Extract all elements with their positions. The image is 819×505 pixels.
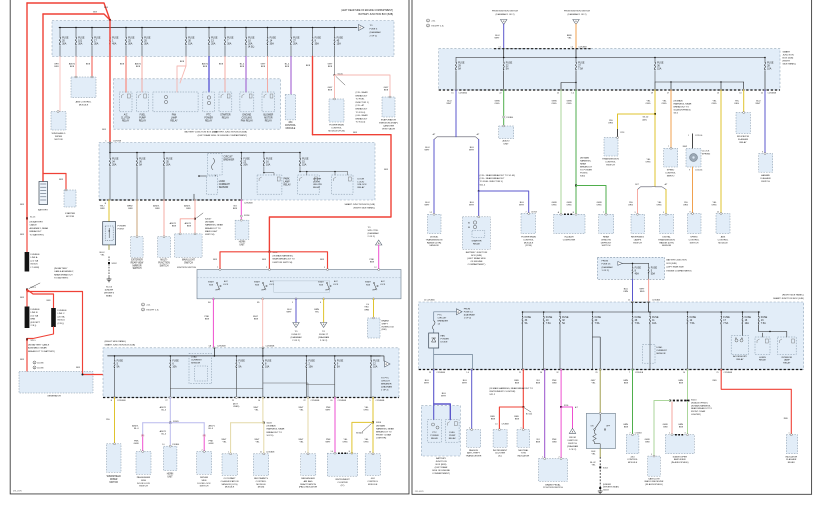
SJB2 internal feed	[109, 143, 111, 153]
green 4x4 wire	[623, 369, 644, 435]
svg-text:10A: 10A	[265, 366, 270, 369]
tan wire to mirror switch	[127, 199, 138, 237]
svg-text:WHT: WHT	[469, 150, 475, 152]
fuse36 out subbus	[655, 71, 744, 91]
branch reversing lamps	[628, 190, 637, 215]
svg-text:RED: RED	[514, 416, 519, 418]
purple wire to engine cooling fan relay	[240, 57, 246, 93]
svg-text:BREAKOUT: BREAKOUT	[356, 94, 368, 97]
pink wire to ignition	[370, 245, 379, 270]
svg-text:WIPER: WIPER	[55, 136, 63, 138]
svg-text:C2/SJB04: C2/SJB04	[459, 93, 468, 95]
svg-text:INTERIOR: INTERIOR	[782, 357, 793, 359]
svg-text:CURRENT: CURRENT	[191, 359, 202, 361]
svg-text:COMPUTER: COMPUTER	[563, 239, 576, 241]
clock spring feed	[683, 134, 703, 149]
svg-text:2 OF 2): 2 OF 2)	[320, 340, 328, 342]
svg-text:(LEFT REAR: (LEFT REAR	[435, 466, 448, 469]
fuse28 out	[764, 71, 766, 91]
hazard flasher switch box	[759, 153, 773, 173]
svg-text:PNK: PNK	[209, 441, 214, 443]
svg-text:TO S11.4): TO S11.4)	[356, 112, 366, 114]
svg-text:C2/SJB08: C2/SJB08	[579, 46, 587, 48]
svg-text:GRY: GRY	[591, 380, 596, 382]
svg-text:TO: TO	[370, 25, 373, 27]
svg-text:SIDE: SIDE	[141, 480, 147, 482]
clock spring label	[702, 151, 711, 156]
svg-text:WINDSHIELD: WINDSHIELD	[107, 476, 122, 478]
svg-text:OCCUPANT: OCCUPANT	[223, 477, 236, 480]
indicator flasher label	[737, 135, 749, 144]
generator B+ wire	[27, 292, 103, 376]
svg-text:DRIVER'S SEAT): DRIVER'S SEAT)	[603, 486, 619, 489]
svg-text:A9071: A9071	[69, 63, 76, 66]
BJB bus	[59, 27, 357, 29]
svg-text:10: 10	[739, 93, 741, 95]
svg-text:ORG: ORG	[364, 442, 369, 444]
svg-text:ACC: ACC	[224, 280, 229, 283]
svg-text:ASSEMBLY, NEAR: ASSEMBLY, NEAR	[28, 347, 47, 350]
svg-text:MOTOR: MOTOR	[66, 216, 75, 218]
branch DTR 2	[657, 190, 666, 215]
svg-text:(IN AUDIOPHILE): (IN AUDIOPHILE)	[691, 401, 708, 404]
svg-text:BRN: BRN	[567, 35, 572, 37]
interior lamp relay	[778, 337, 797, 365]
svg-text:(IC): (IC)	[341, 485, 345, 487]
svg-text:SENSOR (OCS): SENSOR (OCS)	[221, 484, 237, 486]
svg-text:GENERATOR: GENERATOR	[47, 395, 61, 398]
svg-text:7: 7	[629, 372, 630, 374]
svg-text:S/202: S/202	[112, 263, 118, 265]
svg-text:UNLOCK: UNLOCK	[358, 184, 368, 186]
svg-text:A9071: A9071	[153, 205, 160, 208]
main light switch box	[175, 233, 202, 257]
svg-text:SERVO: SERVO	[667, 175, 675, 177]
svg-text:C/SJB04: C/SJB04	[506, 117, 513, 119]
svg-text:SMART JUNCTION BOX (SJB): SMART JUNCTION BOX (SJB)	[344, 203, 375, 206]
svg-text:DIGITAL: DIGITAL	[662, 236, 671, 239]
svg-text:HAZARD: HAZARD	[761, 174, 770, 177]
svg-text:ORG: ORG	[662, 103, 667, 105]
svg-text:(DIAGRAM: (DIAGRAM	[368, 232, 379, 235]
left page footer	[13, 491, 23, 493]
svg-text:S203: S203	[267, 423, 273, 425]
svg-text:C2/SJB0B: C2/SJB0B	[266, 346, 275, 348]
right top SJB box	[439, 49, 780, 90]
bottom SJB bus to breaker	[371, 356, 384, 361]
PATS transceiver box	[467, 429, 481, 448]
right top SJB bus	[456, 49, 766, 59]
svg-text:30A: 30A	[94, 43, 99, 46]
svg-text:S11.5: S11.5	[31, 340, 37, 342]
blue start wire	[287, 299, 296, 323]
svg-text:5A: 5A	[506, 68, 509, 71]
pale green wire	[678, 369, 688, 400]
svg-text:INDICATOR: INDICATOR	[737, 135, 749, 138]
svg-text:NEUTRAL: NEUTRAL	[518, 449, 529, 452]
left BJB relay box	[421, 406, 460, 456]
svg-text:PNK: PNK	[552, 380, 557, 382]
svg-text:WHT: WHT	[495, 38, 501, 40]
svg-text:BO 204: BO 204	[526, 414, 532, 416]
wiper bottom label	[107, 476, 122, 484]
svg-text:INTERLOCK: INTERLOCK	[382, 326, 395, 328]
svg-text:FUEL: FUEL	[449, 432, 455, 434]
svg-text:(DIAGRAM: (DIAGRAM	[318, 336, 329, 339]
svg-text:PNK: PNK	[326, 407, 331, 409]
svg-text:RELAY: RELAY	[449, 437, 457, 440]
svg-text:AUDIO: AUDIO	[503, 140, 510, 143]
PCM label	[328, 124, 345, 133]
yellow drop 4x4	[364, 422, 373, 453]
svg-text:FROM IGNITION SWITCH: FROM IGNITION SWITCH	[492, 11, 518, 13]
BJB fuse at x=186	[185, 27, 195, 57]
svg-text:TO FUEL: TO FUEL	[356, 99, 366, 101]
right top SJB bottom connector	[439, 89, 780, 91]
svg-text:RUN: RUN	[366, 285, 371, 287]
svg-text:8: 8	[690, 211, 691, 213]
bjb annotation arrow	[602, 261, 623, 273]
svg-text:9: 9	[762, 151, 763, 153]
svg-text:22: 22	[761, 93, 763, 95]
clock spring box	[686, 149, 701, 168]
svg-text:10A: 10A	[309, 366, 314, 369]
red neutral tow drop	[514, 407, 523, 430]
svg-text:NEAR BREAKOUT: NEAR BREAKOUT	[54, 273, 73, 276]
starter motor label	[65, 212, 75, 218]
horn switch label	[689, 237, 700, 245]
RCM label	[254, 477, 268, 489]
svg-text:BRN/: BRN/	[127, 206, 133, 208]
right bottom SJB label	[773, 294, 804, 300]
svg-text:TO: TO	[322, 331, 325, 333]
svg-text:7: 7	[526, 211, 527, 213]
splice S206	[560, 405, 579, 428]
orange wire from arrow2	[567, 24, 587, 49]
bottom SJB bus	[108, 348, 381, 356]
svg-text:1: 1	[228, 452, 229, 454]
svg-text:ORG: ORG	[712, 205, 717, 207]
svg-text:RED: RED	[490, 416, 495, 418]
svg-text:LINK B: LINK B	[31, 312, 38, 314]
EVAP label	[379, 119, 398, 131]
splice S1.05	[334, 74, 344, 77]
svg-text:REVERSING: REVERSING	[631, 237, 644, 239]
svg-text:MULTI-: MULTI-	[160, 260, 168, 262]
right top SJB label	[783, 51, 797, 66]
ignition feed branch left	[213, 252, 269, 270]
svg-text:2: 2	[469, 427, 470, 429]
OCS module box	[222, 453, 237, 476]
svg-text:EXCEPT 2.3L: EXCEPT 2.3L	[432, 25, 445, 27]
park lamp relay	[257, 175, 291, 194]
ignition contacts group 3	[318, 280, 339, 292]
PATS label	[466, 449, 482, 458]
svg-text:LIGHTER): LIGHTER)	[691, 414, 701, 416]
svg-text:CANISTER: CANISTER	[383, 125, 394, 128]
violet drop passenger	[132, 423, 144, 452]
svg-text:BREAKOUT TO: BREAKOUT TO	[205, 227, 221, 230]
horn unit bottom box	[164, 445, 177, 470]
starter motor	[64, 189, 76, 207]
svg-text:2.3L)): 2.3L))	[31, 325, 37, 327]
svg-text:5: 5	[369, 400, 370, 402]
svg-text:INJECTOR 1): INJECTOR 1)	[356, 102, 369, 104]
orange sub branch	[663, 402, 672, 435]
wire to blower motor relay	[261, 57, 268, 93]
svg-text:10A: 10A	[373, 366, 378, 369]
indicator flasher relay box	[736, 112, 751, 134]
svg-text:29: 29	[651, 93, 653, 95]
generator box	[19, 372, 93, 394]
svg-text:PASSENGER: PASSENGER	[137, 476, 151, 479]
svg-text:ORG: ORG	[343, 442, 348, 444]
BJB lower box label	[198, 131, 248, 137]
svg-text:WHT: WHT	[326, 442, 332, 444]
svg-text:TO PTC: TO PTC	[381, 378, 389, 380]
svg-text:(3.0 GA: (3.0 GA	[31, 314, 39, 317]
junction S11.5	[26, 339, 55, 353]
svg-text:EXTERIOR: EXTERIOR	[131, 260, 143, 262]
fan lamp relay	[153, 92, 198, 122]
svg-text:B4: B4	[208, 302, 210, 304]
svg-text:CONTROL: CONTROL	[256, 481, 267, 483]
orange servo wire	[662, 89, 692, 148]
svg-text:SWITCH: SWITCH	[690, 242, 699, 244]
svg-text:IGNITION SWITCH: IGNITION SWITCH	[177, 267, 196, 269]
svg-text:DOOR: DOOR	[313, 181, 320, 183]
yellow BSI wire	[364, 299, 373, 318]
svg-text:LIGHTER): LIGHTER)	[376, 438, 386, 440]
svg-text:WHT: WHT	[756, 103, 762, 105]
right 4x4 module box	[626, 434, 639, 454]
SJB2 sub-bus	[299, 167, 347, 176]
neutral tow box	[517, 429, 530, 448]
svg-text:BLU: BLU	[495, 35, 500, 37]
svg-text:S204: S204	[376, 422, 382, 424]
svg-text:(RIGHT SIDE PANEL): (RIGHT SIDE PANEL)	[782, 294, 804, 297]
wire gray to wiper	[54, 57, 60, 112]
right 4x4 label	[627, 456, 638, 464]
svg-text:7: 7	[630, 433, 631, 435]
magenta cluster wire	[326, 397, 347, 454]
PAD label	[299, 477, 318, 489]
svg-text:1.2: 1.2	[430, 212, 433, 214]
Y split DTR	[433, 133, 481, 140]
svg-text:HORN: HORN	[759, 357, 766, 359]
svg-text:PTC: PTC	[206, 115, 211, 117]
svg-text:HARNESS, NEAR: HARNESS, NEAR	[376, 427, 394, 430]
blue wire bjb to sjb	[623, 279, 632, 302]
svg-text:WINDSHIELD: WINDSHIELD	[52, 133, 66, 135]
svg-text:TO BATTERY): TO BATTERY)	[54, 277, 68, 280]
svg-text:(LEFT REAR SIDE: (LEFT REAR SIDE	[667, 266, 685, 269]
svg-text:RED: RED	[784, 418, 789, 420]
relay feed jogs	[759, 331, 787, 337]
SJB2 fuse at x=300	[299, 152, 309, 167]
svg-text:STARTER: STARTER	[65, 212, 75, 215]
svg-text:SUBWOOFER: SUBWOOFER	[673, 456, 688, 458]
wire label BK8 b	[104, 7, 109, 9]
svg-text:CLASSIFICATION: CLASSIFICATION	[221, 480, 239, 483]
svg-text:TO BATTERY): TO BATTERY)	[30, 233, 44, 236]
svg-text:GRY: GRY	[54, 64, 59, 66]
generator terminal circ 2	[33, 366, 44, 369]
svg-text:RELAY: RELAY	[358, 186, 366, 189]
fuse27 out jog	[561, 71, 577, 91]
svg-text:A9071: A9071	[132, 425, 139, 428]
svg-text:LOCK: LOCK	[269, 284, 275, 286]
svg-text:RUN: RUN	[209, 285, 214, 287]
flasher relay right label	[785, 455, 797, 464]
svg-text:LAMP: LAMP	[784, 359, 790, 362]
svg-text:14: 14	[258, 400, 260, 402]
svg-text:UNIT: UNIT	[239, 244, 245, 246]
svg-text:FUSE 22: FUSE 22	[292, 334, 302, 336]
svg-text:50A: 50A	[651, 273, 656, 276]
svg-text:3: 3	[685, 433, 686, 435]
svg-text:ACC: ACC	[270, 280, 275, 283]
mirror switch label	[131, 260, 145, 271]
svg-text:SIDE PANEL): SIDE PANEL)	[783, 63, 797, 66]
svg-text:(LEFT REAR SIDE OF ENGINE COMP: (LEFT REAR SIDE OF ENGINE COMPARTMENT)	[341, 9, 393, 12]
svg-text:CIRCUIT: CIRCUIT	[224, 157, 234, 159]
svg-text:2: 2	[266, 267, 267, 269]
svg-text:SPRING: SPRING	[702, 153, 711, 155]
svg-text:40A: 40A	[635, 273, 640, 276]
svg-text:GRN: GRN	[209, 443, 214, 445]
svg-text:PTC: PTC	[432, 432, 437, 434]
svg-text:(IN BATTERY: (IN BATTERY	[54, 267, 68, 270]
arrow to fuse 22	[291, 323, 302, 343]
svg-text:20A: 20A	[166, 164, 171, 167]
yellow flasher wire	[734, 89, 745, 112]
svg-text:2: 2	[559, 456, 560, 458]
neutral tow label	[517, 449, 529, 458]
svg-text:1: 1	[789, 433, 790, 435]
speed control servo box	[664, 147, 678, 167]
svg-text:POWER: POWER	[204, 117, 213, 119]
svg-text:A9071: A9071	[184, 205, 191, 208]
blue wire from arrow1	[495, 24, 504, 49]
svg-text:FAN: FAN	[172, 114, 177, 117]
svg-text:(IN MAIN HARNESS, NEAR BREAKOU: (IN MAIN HARNESS, NEAR BREAKOUT TO	[489, 387, 533, 390]
bottom SJB internal jogs	[170, 369, 334, 398]
svg-text:BRN: BRN	[31, 319, 36, 321]
svg-text:SATELLITE: SATELLITE	[648, 477, 660, 480]
bottom SJB bottom connector	[103, 397, 399, 399]
right top SJB fuse x=765	[764, 58, 773, 71]
right top SJB fuse x=576	[575, 58, 584, 71]
svg-text:1 OF 2): 1 OF 2)	[569, 449, 577, 451]
svg-text:ORG: ORG	[657, 205, 662, 207]
svg-text:GRY: GRY	[328, 64, 333, 66]
bottom SJB load current sensor	[189, 353, 215, 383]
svg-text:BLU: BLU	[520, 202, 525, 204]
svg-text:ORG: ORG	[628, 205, 633, 207]
svg-text:C2/SJB06: C2/SJB06	[437, 372, 446, 374]
svg-text:BL.4: BL.4	[162, 410, 167, 412]
svg-text:TO POWER: TO POWER	[580, 170, 592, 172]
accessory relay	[731, 336, 749, 361]
wire to EVAP vent valve	[335, 75, 391, 97]
svg-text:CONTROL: CONTROL	[331, 128, 342, 130]
svg-text:GRN: GRN	[623, 424, 628, 426]
svg-text:LOCK/: LOCK/	[358, 181, 365, 183]
svg-text:RANGE (DTR): RANGE (DTR)	[659, 241, 674, 244]
svg-text:RELAY: RELAY	[170, 119, 178, 122]
svg-text:AMPLIFIER: AMPLIFIER	[674, 458, 686, 461]
yellow wire 4x4	[364, 397, 385, 423]
fusible link A	[25, 252, 41, 272]
svg-text:30A: 30A	[227, 43, 232, 46]
svg-text:FUNCTION: FUNCTION	[158, 262, 170, 264]
svg-text:(DIAGRAM: (DIAGRAM	[370, 31, 381, 34]
svg-text:RELAY: RELAY	[122, 119, 130, 122]
svg-text:FROM: FROM	[569, 437, 576, 439]
from ignition arrow 2	[564, 11, 590, 25]
svg-text:CLUSTER: CLUSTER	[337, 482, 348, 484]
violet drop driver	[203, 423, 216, 452]
svg-text:1: 1	[669, 433, 670, 435]
svg-text:(DIAGRAM: (DIAGRAM	[464, 313, 475, 316]
horn unit mid label	[239, 242, 246, 247]
svg-text:BATTERY JUNCTION: BATTERY JUNCTION	[667, 259, 688, 262]
svg-text:MODULE (PCM): MODULE (PCM)	[328, 131, 345, 133]
svg-text:(2.3L)): (2.3L))	[58, 323, 65, 325]
svg-text:FUSE 14: FUSE 14	[464, 311, 474, 313]
olive switch feed	[591, 369, 602, 414]
svg-text:(IN MAIN: (IN MAIN	[376, 424, 385, 427]
SJB2 fuse at x=263.9	[263, 152, 273, 167]
DTR 2 label	[658, 236, 675, 248]
svg-text:22: 22	[303, 400, 305, 402]
svg-text:JUNCTION: JUNCTION	[435, 461, 446, 463]
svg-text:SHIFT: SHIFT	[382, 323, 389, 325]
svg-text:GRN: GRN	[552, 202, 557, 204]
bjb annotation fuse 1	[622, 263, 641, 280]
climate control box	[554, 213, 585, 233]
svg-text:NEAR BREAKOUT TO: NEAR BREAKOUT TO	[691, 407, 713, 410]
battery feed wire 1 drop	[26, 3, 28, 219]
svg-text:RELAY: RELAY	[431, 437, 439, 440]
svg-text:11.DVB: 11.DVB	[37, 367, 44, 369]
svg-text:BLU: BLU	[756, 101, 761, 103]
svg-text:S2056: S2056	[244, 215, 249, 217]
svg-text:ACC: ACC	[381, 280, 386, 283]
generator label	[47, 395, 61, 398]
BJB fuse at x=110	[109, 27, 119, 57]
passenger door lock switch box	[136, 450, 151, 475]
svg-text:GRN: GRN	[663, 424, 668, 426]
blue starter relay drop	[469, 191, 479, 217]
pink jog wire to fan relay	[177, 57, 186, 93]
svg-text:CABLE ASSEMBLY,: CABLE ASSEMBLY,	[54, 270, 74, 273]
svg-text:S3.10: S3.10	[643, 117, 650, 119]
right page footer	[415, 491, 425, 493]
right bottom SJB top pins	[424, 300, 650, 303]
svg-text:BLU: BLU	[425, 202, 430, 204]
svg-text:RELAY: RELAY	[783, 362, 791, 365]
svg-text:STARTER: STARTER	[220, 114, 231, 117]
svg-text:TO S11.4): TO S11.4)	[356, 122, 366, 124]
svg-text:85 BLK: 85 BLK	[31, 264, 39, 266]
bjb annotation box	[597, 257, 664, 279]
RCM box	[253, 453, 268, 476]
green wire B	[567, 89, 578, 185]
svg-text:ORG: ORG	[712, 103, 717, 105]
blue branch starter relay	[469, 140, 479, 192]
